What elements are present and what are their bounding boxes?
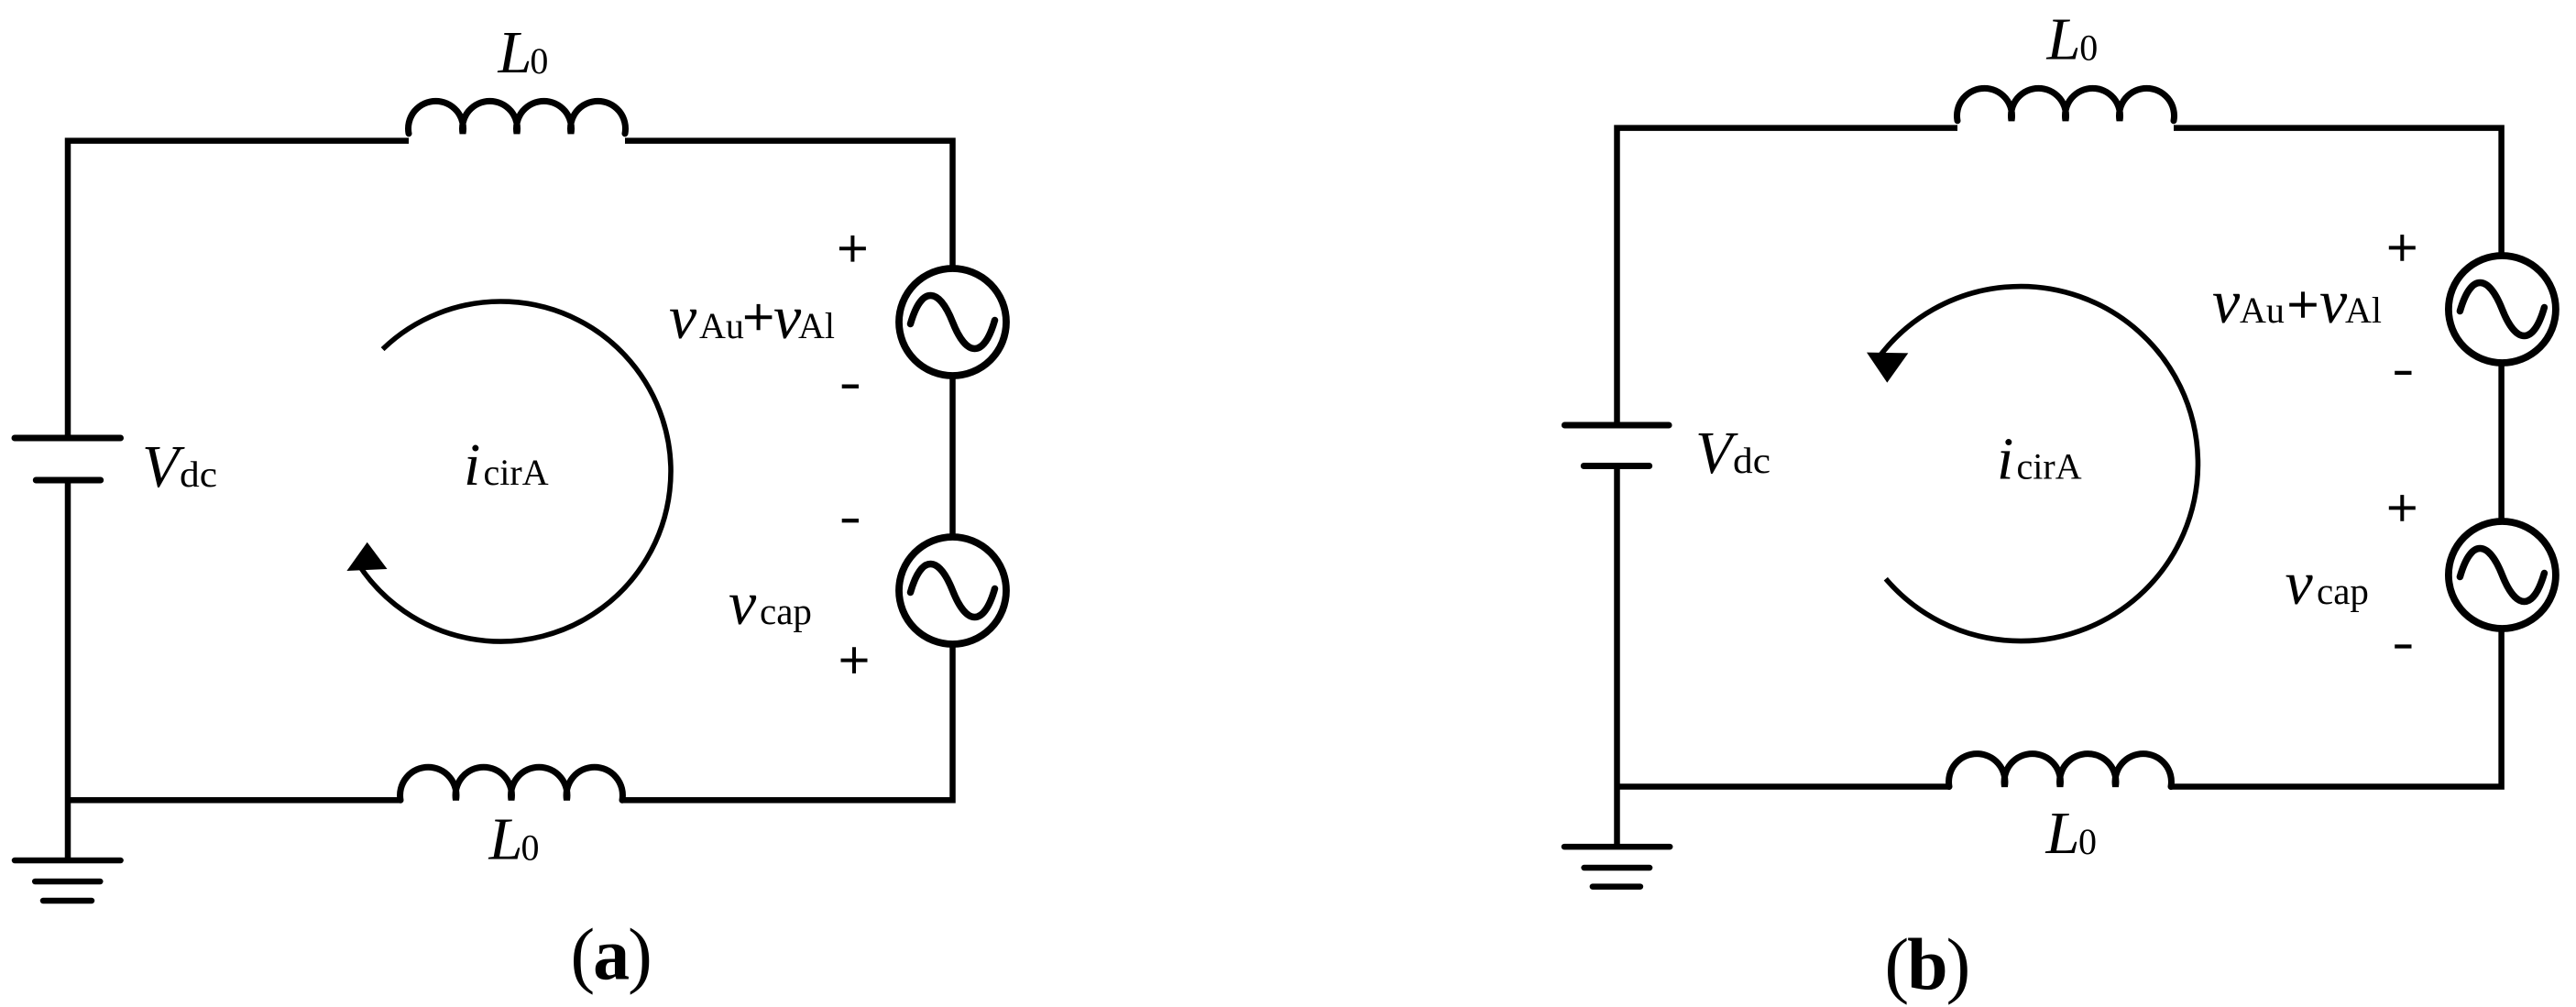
svg-text:(a): (a) — [571, 915, 651, 996]
svg-text:(b): (b) — [1885, 925, 1969, 1006]
